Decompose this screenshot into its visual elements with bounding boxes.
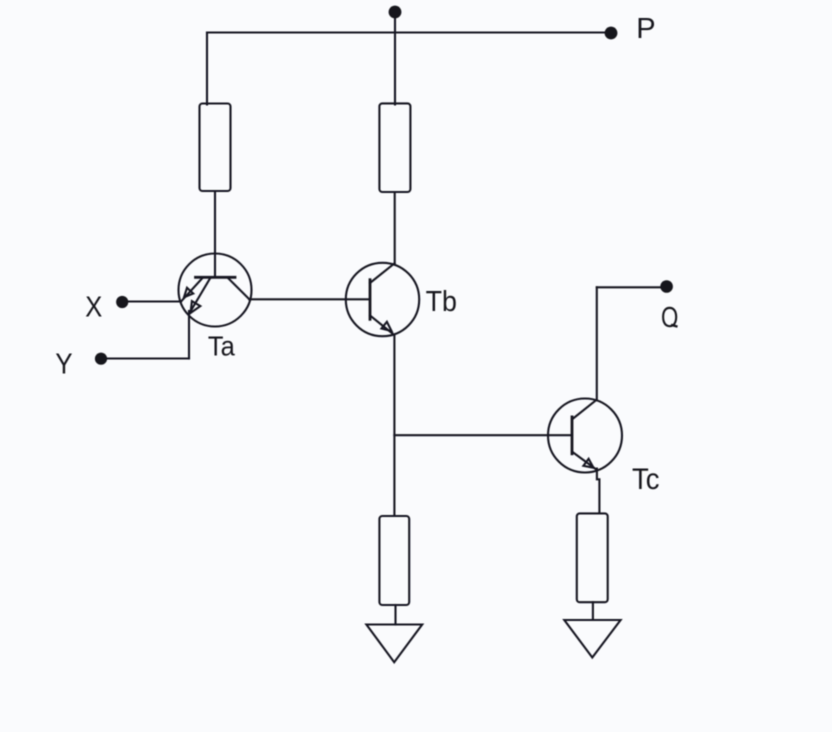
Tc emitter segment	[573, 452, 598, 470]
wire R1 to Ta base	[214, 191, 216, 277]
wire Tc collector to Q	[597, 286, 667, 288]
Tc body circle	[548, 399, 622, 473]
node Q terminal dot	[660, 280, 673, 293]
svg-text:Tc: Tc	[632, 463, 660, 496]
wire R2 to Tb collector	[394, 192, 396, 263]
wire R3 to ground	[394, 605, 396, 625]
Ta collector segment	[229, 279, 250, 300]
wire R4 to ground	[592, 602, 594, 620]
Tc emitter arrowhead	[583, 459, 593, 468]
svg-text:Ta: Ta	[208, 330, 235, 361]
Tb base bar	[369, 280, 372, 320]
resistor R3	[379, 516, 409, 605]
transistor Tb	[346, 263, 419, 336]
resistor R2	[379, 103, 410, 192]
wire emitter node to Tc base	[394, 434, 572, 436]
wire Tc emitter to R4	[597, 469, 600, 514]
wire Tc collector vertical	[596, 287, 598, 400]
node X terminal dot	[116, 296, 128, 308]
wire Ta collector to Tb base	[249, 298, 370, 300]
ground GND1	[366, 625, 422, 663]
wire Y input vertical riser	[188, 311, 190, 359]
Ta emitter 2 segment	[190, 279, 211, 314]
wire left branch vertical	[206, 33, 208, 105]
resistor R1	[200, 104, 231, 192]
Tc collector segment	[573, 400, 597, 419]
Tb emitter segment	[370, 316, 394, 335]
svg-text:X: X	[85, 291, 102, 323]
Ta emitter 2 arrowhead	[191, 301, 201, 313]
Ta base bar	[196, 276, 236, 279]
Ta emitter 1 segment	[181, 279, 202, 302]
transistor Tc	[548, 399, 622, 473]
Ta body circle	[179, 254, 252, 327]
Ta emitter 1 arrowhead	[184, 288, 193, 298]
wire Tb emitter down to R3	[393, 335, 395, 516]
svg-text:O: O	[661, 302, 678, 334]
ground GND2	[564, 620, 620, 658]
Tc base bar	[571, 417, 574, 454]
Tb body circle	[346, 263, 419, 336]
wire Y input horizontal	[105, 357, 189, 359]
node P terminal dot	[605, 27, 618, 40]
svg-text:Tb: Tb	[426, 286, 457, 318]
transistor Ta	[179, 254, 252, 327]
Tb collector segment	[370, 263, 395, 283]
svg-text:Y: Y	[55, 349, 72, 381]
Tb emitter arrowhead	[382, 322, 392, 331]
node Y terminal dot	[95, 353, 107, 365]
wire X input	[126, 300, 181, 302]
svg-text:P: P	[636, 13, 655, 45]
node VCC terminal dot	[389, 6, 402, 19]
wire VCC stub vertical to R2	[394, 12, 396, 105]
label Q	[661, 302, 678, 334]
wire top rail horizontal	[207, 31, 611, 33]
resistor R4	[577, 513, 608, 602]
